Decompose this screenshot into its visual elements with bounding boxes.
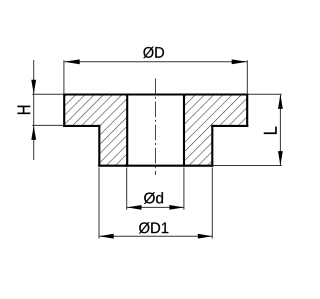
bore left edge [126,95,128,166]
flange bottom left [64,125,99,127]
ext line d right [183,168,185,210]
dimension thin lines [32,60,282,239]
body bottom edge [99,165,212,167]
dim line L [279,94,281,165]
body left edge [98,126,100,166]
arrow D1 right [198,234,213,239]
arrow H top (points down) [31,80,36,95]
dim line D1 [99,235,212,237]
hatched cross-section left L-shape [64,95,127,166]
ext line d left [126,168,128,210]
arrow d right [169,205,184,210]
label D1 [139,222,168,233]
label L [264,127,277,134]
dim line d [127,206,184,208]
flange bottom right [212,125,247,127]
arrow OD right [232,59,248,64]
hatched cross-section right L-shape [184,95,247,166]
ext line OD left [63,60,65,94]
flange right edge [246,95,248,126]
bore right edge [183,95,185,166]
arrow d left [127,205,142,210]
arrow D1 left [99,234,114,239]
part outline [64,95,247,166]
label d [144,192,163,204]
label H [18,106,31,114]
arrow L top (points up) [278,94,283,109]
arrowheads [31,59,282,238]
flange left edge [63,95,65,126]
ext line D1 left [98,168,100,239]
ext line OD right [246,60,248,94]
arrow L bottom (points down) [278,151,283,166]
body right edge [211,126,213,166]
arrow H bottom (points up) [31,125,36,139]
ext line H top [32,93,64,95]
label OD [143,47,164,58]
flange top edge [64,93,247,95]
ext line H bottom [32,124,64,126]
arrow OD left [64,59,80,64]
ext line D1 right [211,168,213,239]
dim line OD [64,61,247,63]
ext line L top [247,93,282,95]
dim line H [33,60,35,160]
centerline [155,79,157,176]
ext line L bottom [212,165,281,167]
